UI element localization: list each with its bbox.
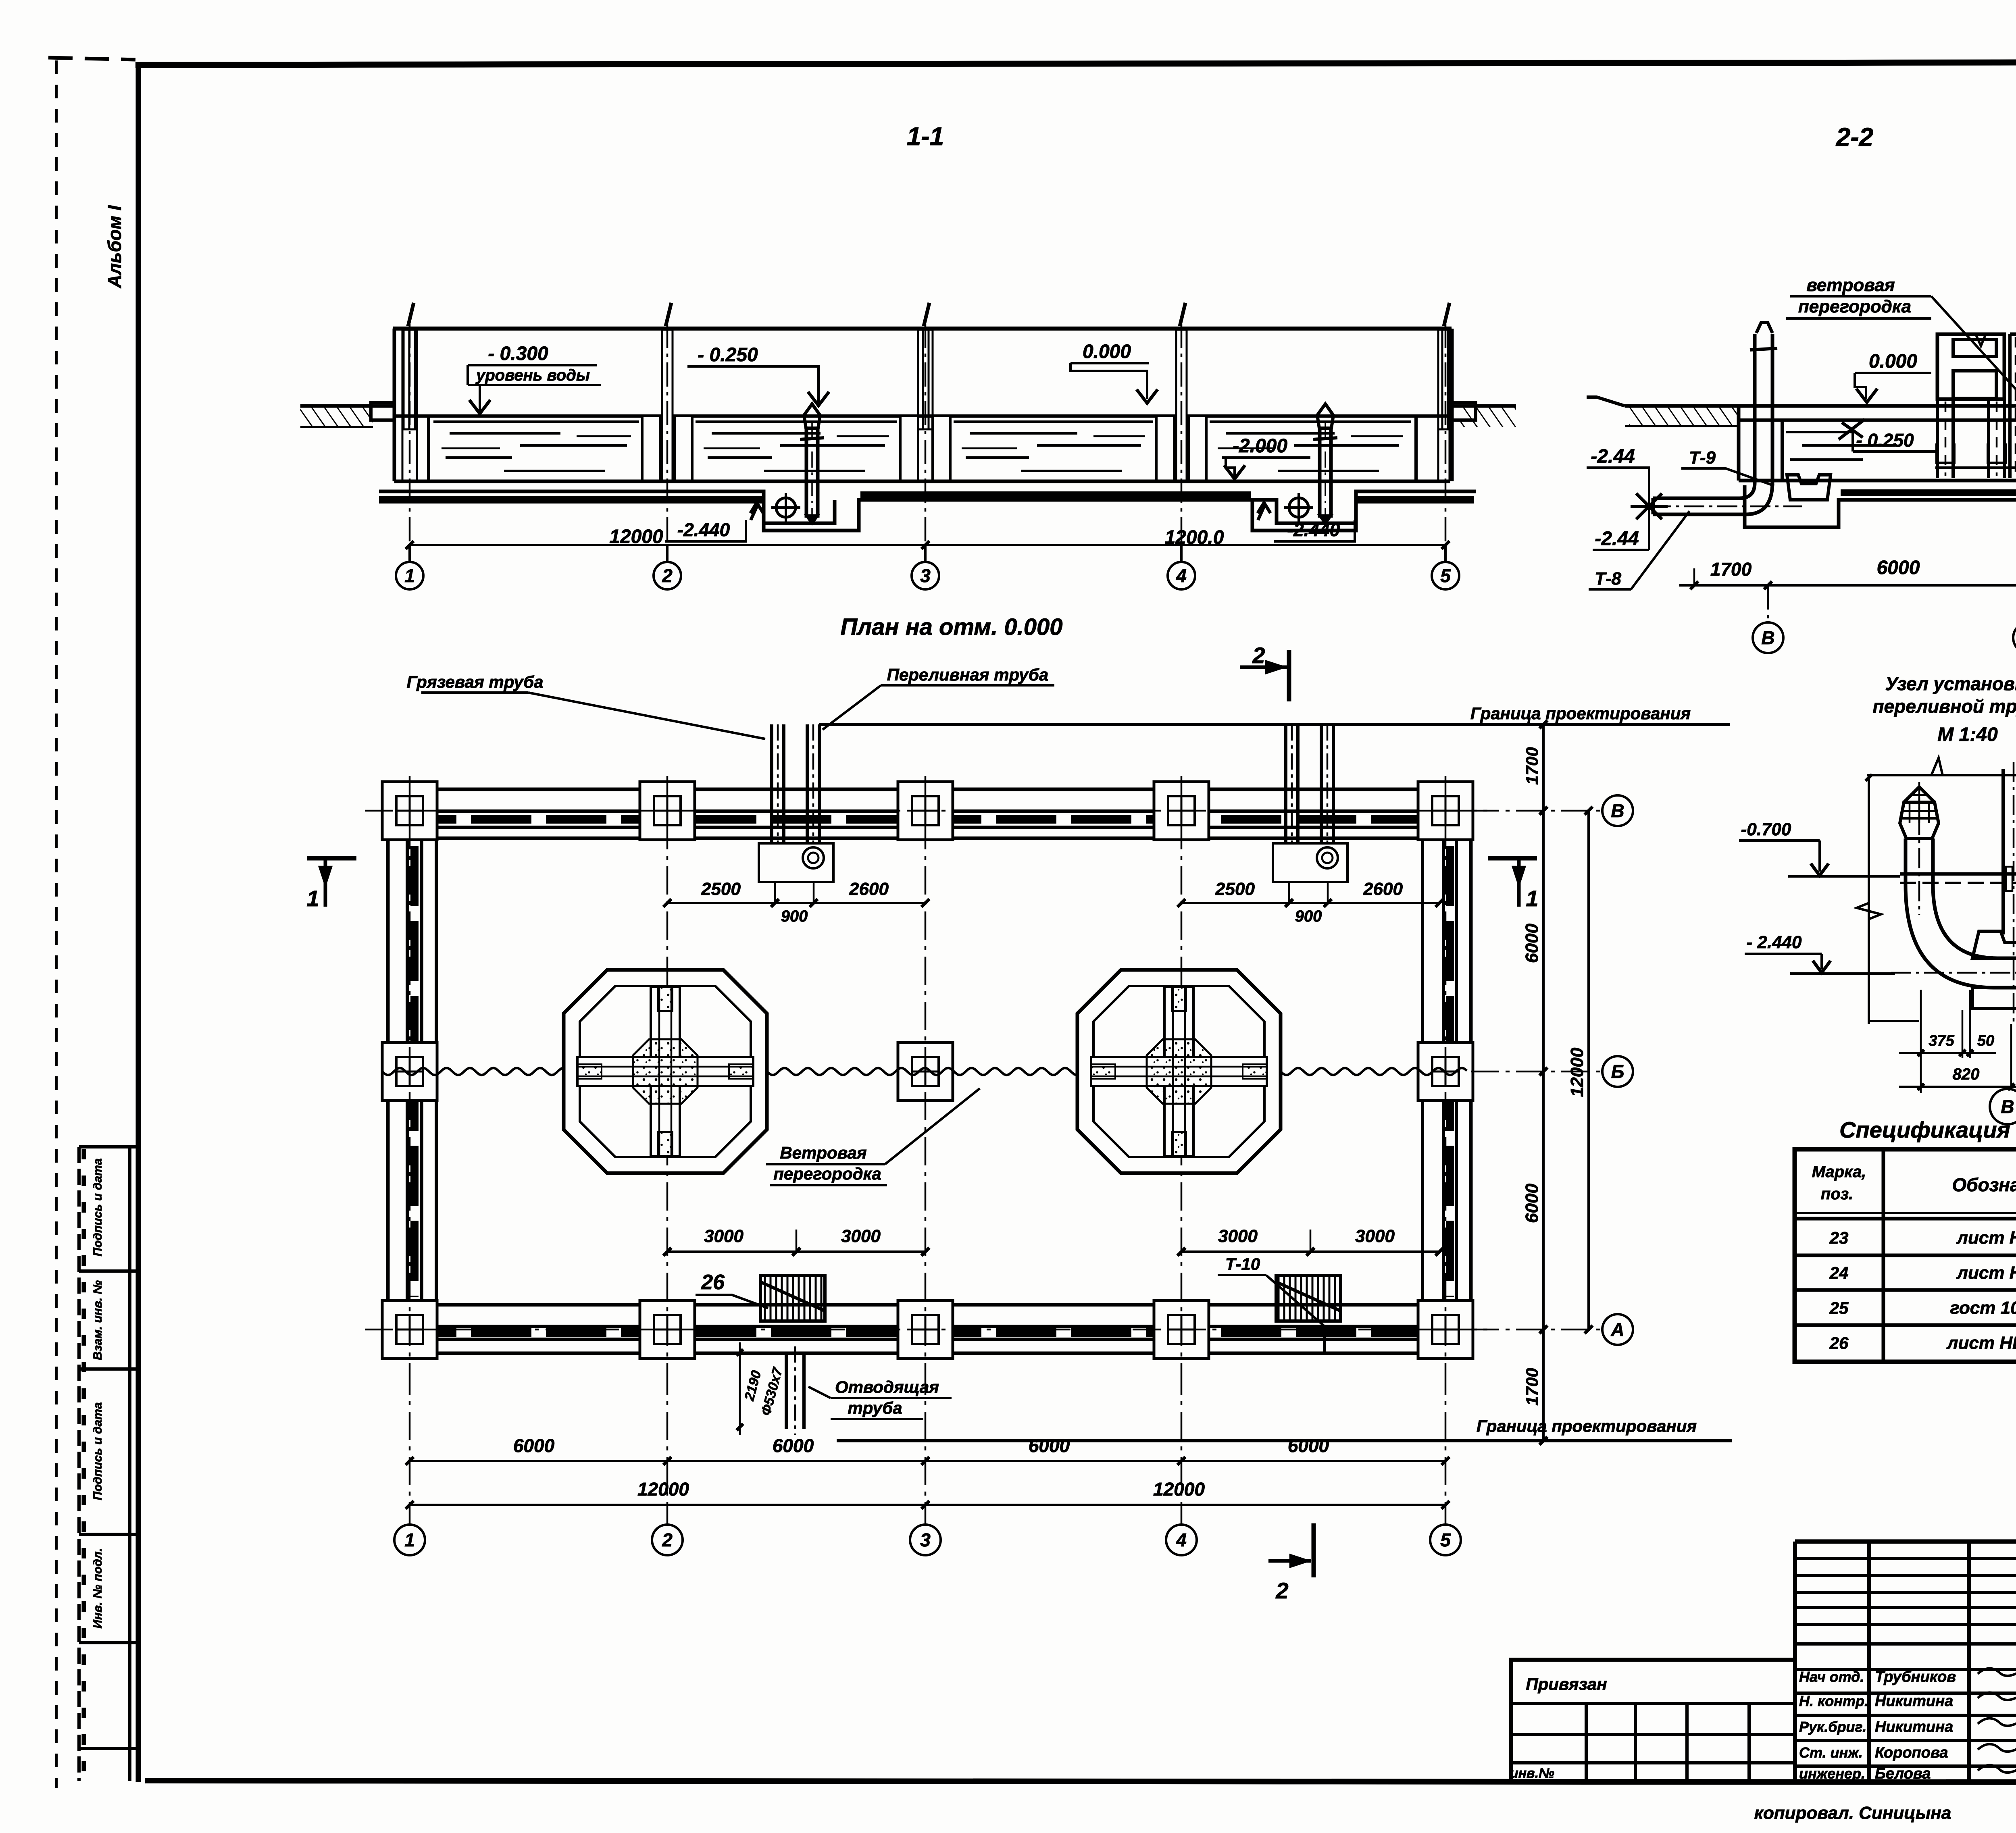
plan axis centerlines: [365, 776, 1492, 1367]
svg-text:900: 900: [781, 907, 808, 925]
svg-text:2500: 2500: [1215, 879, 1255, 899]
plan outer walls: [388, 789, 1471, 1353]
column post at axis x=3585: [1438, 330, 1453, 429]
basin walkway line: [394, 414, 1450, 418]
svg-text:- 2.440: - 2.440: [1747, 932, 1802, 952]
svg-text:Подпись и дата: Подпись и дата: [91, 1402, 104, 1500]
wind partition blocks section 2-2: [1937, 327, 2016, 484]
overflow standpipe at x=2014 section 1-1: [800, 404, 824, 524]
svg-text:3: 3: [920, 1529, 931, 1550]
plan axis circle Б: [1602, 1056, 1633, 1087]
svg-text:Отводящая: Отводящая: [835, 1377, 939, 1396]
plan axis circle А: [1602, 1314, 1633, 1345]
svg-text:1700: 1700: [1522, 747, 1541, 784]
svg-text:Переливная труба: Переливная труба: [887, 665, 1049, 684]
svg-text:Рук.бриг.: Рук.бриг.: [1799, 1719, 1866, 1735]
svg-text:Нач отд.: Нач отд.: [1799, 1669, 1864, 1685]
svg-text:инв.№: инв.№: [1510, 1766, 1554, 1781]
svg-text:2600: 2600: [1363, 879, 1403, 899]
left stamp strip: [79, 1147, 138, 1781]
svg-text:6000: 6000: [1522, 1184, 1542, 1223]
svg-text:2600: 2600: [849, 879, 889, 899]
plan column at x=3585 y=3298: [1418, 1300, 1473, 1359]
floor and slab section 2-2: [1739, 479, 2016, 483]
svg-text:Т-9: Т-9: [1689, 448, 1716, 468]
svg-text:уровень воды: уровень воды: [475, 366, 590, 384]
svg-text:перегородка: перегородка: [1798, 297, 1911, 316]
svg-text:лист НВ.Н - 10: лист НВ.Н - 10: [1946, 1333, 2016, 1353]
svg-text:25: 25: [1829, 1298, 1849, 1317]
overflow/drain pipes at plan top x=1922: [759, 724, 833, 883]
plan axis circle В: [1602, 795, 1633, 826]
svg-text:4: 4: [1176, 1529, 1187, 1550]
plan column at x=2295 y=2011: [898, 782, 953, 840]
svg-text:Трубников: Трубников: [1875, 1669, 1956, 1685]
dimension 3000-3000 at x=1655: [663, 1226, 929, 1256]
svg-text:- 0.250: - 0.250: [1856, 430, 1914, 451]
partition walls at axis x=1655: [642, 416, 660, 481]
column post at axis x=2930: [1176, 330, 1187, 481]
column post at axis x=1655: [662, 330, 673, 481]
svg-text:Привязан: Привязан: [1526, 1675, 1607, 1694]
boundary line bottom: [837, 1439, 1732, 1442]
svg-text:-2.440: -2.440: [1287, 519, 1340, 540]
svg-text:2: 2: [1252, 643, 1265, 668]
svg-text:Т-10: Т-10: [1225, 1255, 1260, 1273]
svg-text:Узел установки: Узел установки: [1885, 673, 2016, 694]
svg-text:12000: 12000: [609, 526, 663, 547]
partition walls at axis x=2295: [900, 416, 918, 481]
svg-text:6000: 6000: [1877, 557, 1920, 578]
plan axis circle 5: [1445, 1367, 1447, 1525]
svg-text:26: 26: [1829, 1334, 1849, 1352]
svg-text:Никитина: Никитина: [1875, 1719, 1953, 1735]
svg-text:В: В: [1761, 627, 1774, 648]
protective grating plan x=3165: [1276, 1275, 1341, 1321]
svg-text:лист НВ.Н-9: лист НВ.Н-9: [1956, 1263, 2016, 1283]
fan foundation octagon 2: [1077, 970, 1281, 1173]
svg-text:- 0.300: - 0.300: [488, 343, 548, 364]
svg-text:копировал. Синицына: копировал. Синицына: [1754, 1803, 1951, 1823]
svg-text:1700: 1700: [1522, 1368, 1541, 1405]
plan column at x=1655 y=2011: [640, 782, 695, 840]
svg-text:инженер.: инженер.: [1799, 1765, 1865, 1782]
basin outer walls: [393, 329, 396, 481]
axis circle 3 section 1-1: [924, 545, 927, 562]
svg-text:поз.: поз.: [1821, 1185, 1853, 1203]
detail 1 node circle В: [1990, 1089, 2016, 1124]
axis circle 4 section 1-1: [1180, 545, 1183, 562]
svg-text:1: 1: [404, 1529, 415, 1550]
svg-text:Никитина: Никитина: [1875, 1693, 1953, 1710]
svg-text:6000: 6000: [513, 1435, 555, 1456]
svg-text:3000: 3000: [841, 1226, 881, 1246]
svg-text:А: А: [1610, 1319, 1624, 1340]
dimension 2500-900-2600 at x=1655: [663, 879, 929, 925]
svg-text:Ветровая: Ветровая: [780, 1143, 866, 1162]
pipe T-8 exit left section 2-2: [1652, 498, 1655, 514]
plan axis circle 4: [1181, 1367, 1183, 1525]
section cut mark 2 top: [1287, 650, 1291, 701]
plan column at x=2930 y=2011: [1154, 782, 1209, 840]
outgoing pipe plan bottom: [737, 1342, 952, 1435]
svg-text:4: 4: [1176, 565, 1187, 586]
svg-text:Марка,: Марка,: [1812, 1163, 1866, 1181]
basin walls section 2-2: [1737, 406, 1741, 481]
svg-text:1700: 1700: [1710, 559, 1752, 580]
svg-text:М 1:40: М 1:40: [1937, 724, 1998, 745]
svg-text:-2.44: -2.44: [1595, 528, 1639, 549]
svg-text:5: 5: [1440, 565, 1451, 586]
svg-text:Н. контр.: Н. контр.: [1799, 1693, 1868, 1709]
svg-text:Подпись и дата: Подпись и дата: [91, 1158, 104, 1256]
plan column at x=2930 y=3298: [1154, 1300, 1209, 1359]
dimension line 12000 section 1-1: [406, 526, 1450, 549]
partition walls at axis x=2930: [1156, 416, 1174, 481]
svg-text:24: 24: [1829, 1263, 1849, 1282]
plan column at x=1655 y=3298: [640, 1300, 695, 1359]
svg-text:В: В: [2001, 1096, 2014, 1117]
detail 1 overflow pipe node: [1739, 758, 2016, 1093]
svg-text:Альбом I: Альбом I: [104, 205, 125, 289]
svg-text:12000: 12000: [637, 1479, 689, 1500]
svg-text:0.000: 0.000: [1083, 341, 1131, 362]
axis circle 1 section 1-1: [408, 545, 411, 562]
title block stamp grid: [1795, 1542, 2016, 1782]
svg-text:12000: 12000: [1153, 1479, 1205, 1500]
svg-text:23: 23: [1829, 1228, 1849, 1247]
plan column at x=2295 y=3298: [898, 1300, 953, 1359]
dimension line section 2-2: [1679, 557, 2016, 589]
section cut mark 2 bottom: [1312, 1523, 1316, 1577]
svg-text:900: 900: [1295, 907, 1322, 925]
column post at axis x=2295: [918, 330, 933, 429]
svg-text:2: 2: [662, 565, 673, 586]
svg-text:3: 3: [920, 565, 931, 586]
ground line left: [300, 404, 394, 408]
svg-text:-0.700: -0.700: [1741, 820, 1791, 839]
plan column at x=1016 y=2658: [382, 1042, 437, 1101]
svg-text:26: 26: [701, 1271, 725, 1294]
svg-text:6000: 6000: [1029, 1435, 1070, 1456]
axis circle В section 2-2: [1767, 585, 1769, 621]
fan foundation octagon 1: [564, 970, 767, 1173]
svg-text:6000: 6000: [1522, 924, 1542, 963]
plan column at x=2295 y=2658: [898, 1042, 953, 1101]
svg-text:ветровая: ветровая: [1806, 275, 1895, 295]
svg-text:Грязевая труба: Грязевая труба: [406, 672, 543, 691]
basin top edge section 1-1: [393, 327, 1452, 331]
svg-text:3000: 3000: [1218, 1226, 1258, 1246]
signatures column: [1799, 1668, 2016, 1782]
dimension 3000-3000 at x=2930: [1177, 1226, 1443, 1256]
plan right dimension chain: [1471, 720, 1602, 1445]
svg-text:1: 1: [1526, 886, 1538, 911]
dimension 2500-900-2600 at x=2930: [1177, 879, 1443, 925]
svg-text:1: 1: [306, 886, 319, 911]
svg-text:План на отм. 0.000: План на отм. 0.000: [840, 614, 1062, 640]
plan axis circle 2: [666, 1367, 669, 1525]
basin floor slab section 1-1: [379, 481, 1476, 531]
section cut mark 1 left: [307, 856, 356, 861]
svg-text:Коропова: Коропова: [1875, 1744, 1948, 1761]
sheet border frame: [135, 62, 2016, 65]
svg-text:переливной трубы: переливной трубы: [1873, 696, 2016, 717]
svg-text:труба: труба: [848, 1398, 902, 1417]
ground line right: [1450, 404, 1516, 408]
svg-text:0.000: 0.000: [1869, 351, 1917, 372]
svg-text:гост 10704-76: гост 10704-76: [1950, 1298, 2016, 1318]
svg-text:Спецификация деталей водосборн: Спецификация деталей водосборного бассей…: [1839, 1117, 2016, 1142]
plan column at x=1016 y=2011: [382, 782, 437, 840]
water surface lines bays section 1-1: [433, 422, 1411, 471]
svg-text:Инв. № подл.: Инв. № подл.: [91, 1548, 104, 1628]
svg-text:2-2: 2-2: [1836, 123, 1874, 152]
axis circle 2 section 1-1: [666, 545, 669, 562]
svg-text:2: 2: [1275, 1578, 1288, 1603]
svg-text:В: В: [1611, 800, 1624, 821]
svg-text:- 0.250: - 0.250: [698, 344, 758, 366]
svg-text:50: 50: [1977, 1032, 1994, 1049]
plan axis circle 1: [409, 1367, 411, 1525]
svg-text:375: 375: [1929, 1032, 1954, 1049]
plan column at x=1016 y=3298: [382, 1300, 437, 1359]
plan column at x=3585 y=2658: [1418, 1042, 1473, 1101]
svg-text:перегородка: перегородка: [773, 1164, 881, 1183]
axis circle 5 section 1-1: [1444, 545, 1447, 562]
svg-text:Обозначение: Обозначение: [1952, 1174, 2016, 1195]
section cut mark 1 right: [1488, 856, 1537, 861]
water lines section 2-2: [1786, 431, 1855, 433]
boundary line top (granica proektirovaniya): [819, 723, 1730, 726]
wavy water break line along axis Б: [382, 1068, 564, 1075]
svg-text:Взам. инв. №: Взам. инв. №: [91, 1280, 104, 1360]
svg-text:1200.0: 1200.0: [1165, 527, 1224, 548]
plan axis circle 3: [925, 1367, 927, 1525]
privyazan box: [1510, 1660, 1795, 1782]
svg-text:6000: 6000: [773, 1435, 814, 1456]
svg-text:-2.000: -2.000: [1233, 435, 1287, 457]
protective grating plan x=1886: [760, 1275, 825, 1321]
column post at axis x=1016: [402, 330, 417, 429]
specification table: [1795, 1149, 2016, 1362]
svg-text:5: 5: [1440, 1529, 1451, 1550]
plan bottom dimension rows: [406, 1435, 1450, 1509]
svg-text:Граница проектирования: Граница проектирования: [1477, 1417, 1697, 1436]
svg-text:-2.440: -2.440: [677, 519, 730, 540]
svg-text:1-1: 1-1: [907, 122, 944, 151]
overflow standpipe at x=3287 section 1-1: [1313, 404, 1337, 524]
svg-text:Б: Б: [1611, 1061, 1624, 1082]
svg-text:3000: 3000: [704, 1226, 744, 1246]
svg-text:1: 1: [404, 565, 415, 586]
sheet edge dashed line: [55, 60, 58, 1788]
svg-text:-2.44: -2.44: [1591, 446, 1635, 467]
svg-text:2: 2: [662, 1529, 673, 1550]
svg-text:6000: 6000: [1288, 1435, 1329, 1456]
svg-text:2500: 2500: [701, 879, 741, 899]
svg-text:820: 820: [1953, 1065, 1980, 1083]
overflow pipe and elbow T-9 section 2-2: [1651, 322, 1831, 514]
svg-text:Граница проектирования: Граница проектирования: [1470, 704, 1691, 723]
svg-text:лист НВ.Н-8: лист НВ.Н-8: [1956, 1228, 2016, 1248]
svg-text:3000: 3000: [1355, 1226, 1395, 1246]
svg-text:Белова: Белова: [1875, 1765, 1931, 1782]
overflow/drain pipes at plan top x=3197: [1273, 724, 1347, 883]
svg-text:Ст. инж.: Ст. инж.: [1799, 1744, 1863, 1761]
plan column at x=3585 y=2011: [1418, 782, 1473, 840]
svg-text:Т-8: Т-8: [1595, 569, 1622, 589]
ground line left section 2-2: [1625, 404, 1739, 408]
